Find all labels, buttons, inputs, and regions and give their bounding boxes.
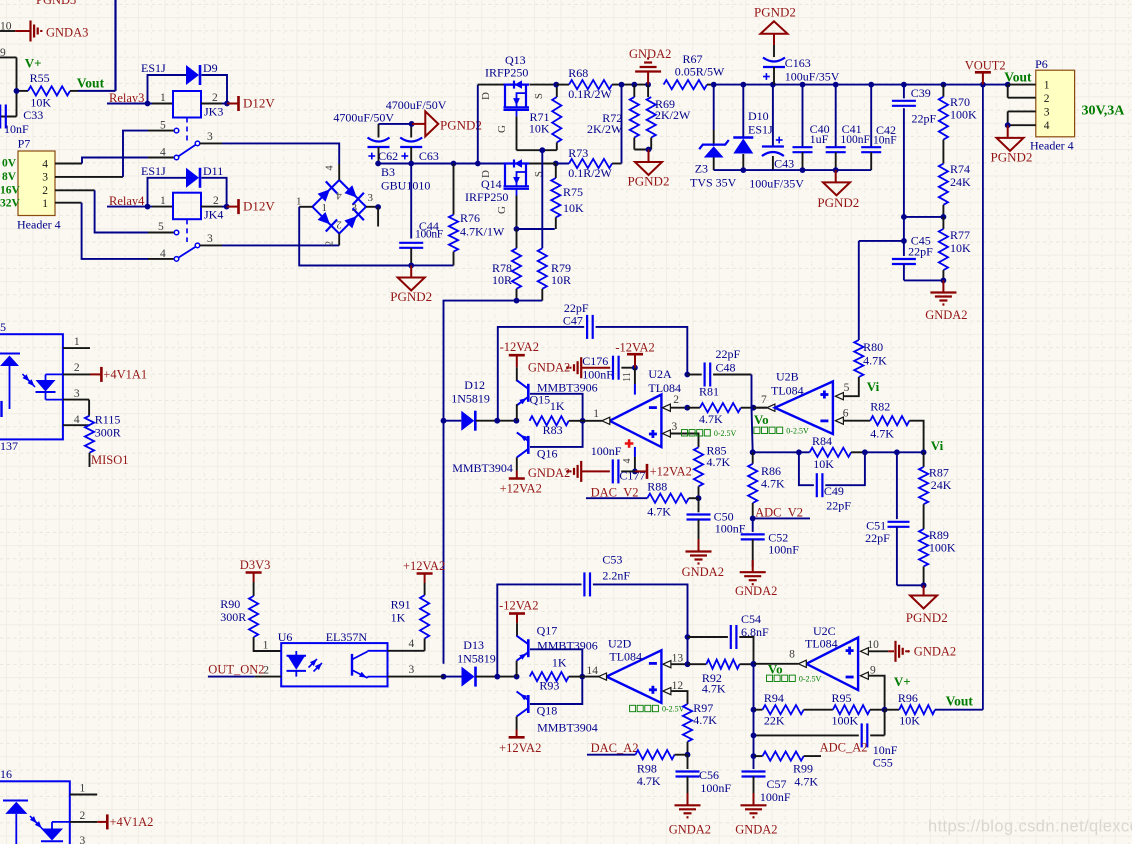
wire Q14 gate <box>496 196 555 232</box>
resistor R99 <box>754 752 822 789</box>
svg-text:Q16: Q16 <box>537 447 558 461</box>
svg-text:IRFP250: IRFP250 <box>485 66 528 80</box>
net 32V label <box>0 198 21 210</box>
power +12VA2 at R91 <box>403 559 445 595</box>
svg-text:R96: R96 <box>898 691 918 705</box>
relay JK4 dashed link <box>186 219 188 242</box>
svg-text:4.7K: 4.7K <box>863 354 887 368</box>
svg-text:4.7K: 4.7K <box>693 713 717 727</box>
svg-text:MMBT3906: MMBT3906 <box>537 639 598 653</box>
resistor R85 <box>694 443 731 501</box>
svg-text:100uF/35V: 100uF/35V <box>785 69 840 83</box>
ground GNDA2 below C56 <box>669 793 711 837</box>
capacitor C43 <box>749 85 804 191</box>
capacitor C176 <box>581 354 638 382</box>
svg-text:R94: R94 <box>764 691 784 705</box>
svg-text:GNDA2: GNDA2 <box>735 823 777 837</box>
opto U16 photodiode <box>41 822 70 841</box>
svg-text:C39: C39 <box>911 86 931 100</box>
svg-text:GNDA2: GNDA2 <box>669 823 711 837</box>
connector P6 <box>1030 57 1075 153</box>
capacitor C56 <box>676 755 732 801</box>
svg-text:32V: 32V <box>0 198 21 210</box>
capacitor C54 <box>685 612 769 664</box>
resistor R75 <box>551 164 584 230</box>
power PGND2 above C163 <box>754 5 796 58</box>
ground GNDA2 below C52 <box>735 560 777 598</box>
net MISO1 <box>90 453 129 467</box>
svg-text:7: 7 <box>761 394 767 406</box>
svg-text:ADC_A2: ADC_A2 <box>820 741 868 755</box>
svg-text:+12VA2: +12VA2 <box>403 559 445 573</box>
svg-text:+12VA2: +12VA2 <box>650 465 692 479</box>
svg-text:VOUT2: VOUT2 <box>965 59 1006 73</box>
svg-text:R55: R55 <box>30 71 50 85</box>
svg-text:R77: R77 <box>950 228 970 242</box>
svg-text:C56: C56 <box>699 768 719 782</box>
op-amp U2D pin13 wire <box>663 653 690 668</box>
ground GNDA2 at U2C pin10 <box>888 641 956 662</box>
svg-text:U2A: U2A <box>648 367 672 381</box>
net DAC_A2 label <box>587 741 639 755</box>
pin 10 wire <box>0 21 15 33</box>
resistor R73 <box>568 146 621 180</box>
svg-text:R68: R68 <box>568 66 588 80</box>
ground GNDA2 at C176 <box>528 357 581 378</box>
svg-text:2.2nF: 2.2nF <box>602 569 630 583</box>
svg-text:1K: 1K <box>550 399 565 413</box>
op-amp U2C TL084 <box>805 624 858 690</box>
opto U16 box (clipped) <box>0 767 70 844</box>
net Vi label right <box>931 438 944 453</box>
svg-text:https://blog.csdn.net/qlexcel: https://blog.csdn.net/qlexcel <box>928 818 1132 836</box>
svg-text:2: 2 <box>213 195 219 207</box>
svg-text:1: 1 <box>1044 79 1050 91</box>
svg-text:C163: C163 <box>785 56 811 70</box>
svg-text:G: G <box>496 125 508 133</box>
svg-text:4.7K: 4.7K <box>699 412 723 426</box>
resistor R67 <box>664 52 725 89</box>
resistor R89 <box>919 528 956 588</box>
svg-text:R76: R76 <box>460 211 480 225</box>
svg-text:JK3: JK3 <box>204 105 223 119</box>
opto U16 pin2 +4V1A2 <box>70 810 154 829</box>
opto U16 LED <box>3 801 43 844</box>
svg-text:C62: C62 <box>378 149 398 163</box>
svg-text:4.7K: 4.7K <box>647 505 671 519</box>
net 16V label <box>0 184 21 196</box>
diode D11 ES1J <box>141 164 227 207</box>
wire filter bottom rail <box>714 167 872 173</box>
svg-text:10K: 10K <box>563 201 584 215</box>
resistor R79 <box>538 150 571 300</box>
resistor R82 <box>870 399 923 452</box>
wire P6 pins 3-4 <box>1005 111 1036 128</box>
capacitor C62 <box>368 124 399 164</box>
resistor R98 <box>635 750 687 788</box>
relay JK4 switch <box>158 221 213 261</box>
ground GNDA2 below R77 <box>925 280 967 322</box>
capacitor C50 <box>687 498 746 547</box>
ground GNDA3 <box>15 21 88 42</box>
svg-text:4700uF/50V: 4700uF/50V <box>333 110 394 124</box>
wire bridge pin3 <box>366 192 381 227</box>
wire Vi node row <box>862 449 926 455</box>
resistor R115 <box>85 412 121 452</box>
svg-text:R73: R73 <box>568 146 588 160</box>
power -12VA2 at Q17 <box>499 599 538 624</box>
opto U5 LED <box>0 354 35 418</box>
svg-text:D12V: D12V <box>243 199 275 214</box>
net PGND3 (clipped text) <box>36 0 76 7</box>
svg-text:MISO1: MISO1 <box>91 453 129 467</box>
transistor Q16 MMBT3904 <box>452 432 557 475</box>
svg-text:C53: C53 <box>602 553 622 567</box>
resistor R87 <box>919 452 952 529</box>
svg-text:4.7K: 4.7K <box>637 774 661 788</box>
diode D13 1N5819 <box>441 638 520 687</box>
capacitor C57 <box>742 664 791 804</box>
opto U16 pin1 wire <box>70 782 97 794</box>
svg-text:3: 3 <box>42 172 48 184</box>
resistor R84 <box>750 434 865 471</box>
svg-text:Vo: Vo <box>754 412 769 427</box>
svg-text:DAC_A2: DAC_A2 <box>591 741 639 755</box>
svg-text:1: 1 <box>160 195 166 207</box>
svg-text:16: 16 <box>0 767 12 781</box>
svg-text:R82: R82 <box>870 399 890 413</box>
svg-text:0V: 0V <box>2 158 17 170</box>
resistor R55 <box>14 71 116 110</box>
opto-coupler U6 EL357N <box>278 630 388 686</box>
svg-text:-12VA2: -12VA2 <box>499 599 538 613</box>
resistor R71 <box>529 85 562 151</box>
svg-text:16V: 16V <box>0 184 21 196</box>
wire P7-1 to relay4 sw4 <box>55 203 174 259</box>
svg-text:2K/2W: 2K/2W <box>655 108 691 122</box>
svg-text:TL084: TL084 <box>805 637 838 651</box>
capacitor C44 <box>399 219 443 265</box>
net Vout label <box>77 76 105 91</box>
svg-text:1K: 1K <box>391 611 406 625</box>
svg-text:GBU1010: GBU1010 <box>381 179 430 193</box>
svg-text:D3V3: D3V3 <box>240 558 271 572</box>
resistor R83 1K <box>530 399 583 437</box>
svg-text:22pF: 22pF <box>912 112 937 126</box>
svg-text:300R: 300R <box>95 426 121 440</box>
svg-text:Vi: Vi <box>867 379 880 394</box>
ground GNDA2 at C177 <box>528 461 581 482</box>
wire P6 pins 1-2 <box>1008 85 1036 98</box>
transistor Q15 MMBT3906 <box>517 367 598 420</box>
opto U16 pin3 label <box>80 835 86 844</box>
svg-text:D: D <box>480 92 492 100</box>
svg-text:G: G <box>496 206 508 214</box>
svg-text:10: 10 <box>867 639 879 651</box>
svg-text:5: 5 <box>0 320 6 334</box>
net Vi label at R80 <box>867 379 880 394</box>
svg-text:1: 1 <box>42 198 48 210</box>
svg-text:D: D <box>480 170 492 178</box>
svg-text:Vi: Vi <box>931 438 944 453</box>
label 4700uF/50V lower <box>333 110 394 124</box>
svg-text:TL084: TL084 <box>771 384 804 398</box>
svg-text:JK4: JK4 <box>204 208 223 222</box>
svg-text:5: 5 <box>844 382 850 394</box>
svg-text:GNDA2: GNDA2 <box>629 47 671 61</box>
op-amp U2C pin8 wire <box>751 649 807 668</box>
wire R83 to U2A out <box>583 420 602 422</box>
relay JK4 coil <box>107 193 230 222</box>
wire Q15/Q16 base loop <box>530 394 585 447</box>
capacitor C33 <box>0 105 43 137</box>
svg-text:4: 4 <box>160 146 166 158</box>
resistor R88 <box>647 480 698 519</box>
net DAC_V2 label <box>586 486 647 500</box>
resistor R95 <box>804 691 888 728</box>
svg-text:PGND2: PGND2 <box>754 5 796 20</box>
svg-text:P6: P6 <box>1035 57 1048 71</box>
svg-text:B3: B3 <box>381 165 395 179</box>
svg-text:PGND3: PGND3 <box>36 0 76 7</box>
svg-text:+4V1A1: +4V1A1 <box>103 367 147 381</box>
opto U5 pin2 +4V1A1 <box>63 362 147 382</box>
svg-text:Header 4: Header 4 <box>17 218 61 232</box>
svg-text:R90: R90 <box>220 597 240 611</box>
op-amp U2A pin3 wire <box>662 421 698 447</box>
ground GNDA2 top <box>629 47 671 85</box>
wire P7-3 to relay3 sw5 <box>55 131 174 177</box>
wire Q13 gate <box>496 117 557 154</box>
svg-text:C47: C47 <box>563 314 583 328</box>
svg-text:Q18: Q18 <box>537 704 558 718</box>
svg-text:R83: R83 <box>543 423 563 437</box>
resistor R81 <box>687 385 756 426</box>
svg-text:3: 3 <box>207 131 213 143</box>
net ADC_A2 label <box>751 741 868 759</box>
svg-text:Vout: Vout <box>77 76 105 91</box>
svg-text:GNDA2: GNDA2 <box>528 466 570 480</box>
svg-text:9: 9 <box>870 665 876 677</box>
svg-text:D11: D11 <box>203 164 223 178</box>
capacitor C47 <box>498 301 688 421</box>
svg-text:13: 13 <box>672 653 684 665</box>
svg-text:3: 3 <box>352 202 358 214</box>
label 137 <box>0 439 18 453</box>
wire P7-4 to relay3 sw4 <box>55 158 174 164</box>
svg-text:24K: 24K <box>950 175 971 189</box>
svg-text:Vout: Vout <box>946 694 974 709</box>
svg-text:PGND2: PGND2 <box>906 610 948 625</box>
label voltage range U2D <box>630 705 685 714</box>
svg-text:D12: D12 <box>464 378 485 392</box>
wire R73 to R68 node <box>619 82 625 164</box>
wire Q17/Q18 base loop <box>530 649 585 704</box>
svg-text:TL084: TL084 <box>648 381 681 395</box>
svg-text:+12VA2: +12VA2 <box>500 482 542 496</box>
svg-text:PGND2: PGND2 <box>991 150 1033 165</box>
svg-text:0-2.5V: 0-2.5V <box>662 705 685 714</box>
op-amp U2B pin5 wire <box>835 377 858 400</box>
svg-text:100nF: 100nF <box>768 543 799 557</box>
svg-text:2: 2 <box>80 810 86 822</box>
svg-text:PGND2: PGND2 <box>440 118 482 133</box>
wire U2B out to Vo column <box>752 398 767 452</box>
svg-text:5: 5 <box>158 221 164 233</box>
svg-text:U2B: U2B <box>776 370 799 384</box>
svg-text:8V: 8V <box>2 171 17 183</box>
svg-text:-12VA2: -12VA2 <box>500 340 539 354</box>
power +12VA2 at C177 <box>635 464 692 479</box>
svg-text:R80: R80 <box>863 340 883 354</box>
svg-text:Vout: Vout <box>1004 70 1032 85</box>
capacitor C49 <box>799 452 865 512</box>
label voltage range U2A <box>682 429 737 438</box>
svg-text:0.05R/5W: 0.05R/5W <box>675 64 725 78</box>
svg-text:22K: 22K <box>764 714 785 728</box>
opto U5 box (clipped) <box>0 320 63 439</box>
connector P7 <box>17 137 61 232</box>
diode D12 1N5819 <box>441 378 520 431</box>
power -12VA2 at U2A <box>615 341 654 368</box>
svg-text:D10: D10 <box>748 109 769 123</box>
svg-text:22pF: 22pF <box>716 347 741 361</box>
svg-text:100K: 100K <box>950 108 977 122</box>
wire left branch vertical <box>16 57 18 116</box>
svg-text:100K: 100K <box>929 541 956 555</box>
svg-text:+4V1A2: +4V1A2 <box>110 815 154 829</box>
svg-text:R91: R91 <box>391 598 411 612</box>
net ADC_V2 label <box>750 506 810 522</box>
net 0V label <box>2 158 17 170</box>
op-amp U2B TL084 <box>771 370 833 435</box>
svg-text:0-2.5V: 0-2.5V <box>714 429 737 438</box>
capacitor C40 <box>793 85 830 171</box>
svg-text:MMBT3904: MMBT3904 <box>452 461 513 475</box>
svg-text:22pF: 22pF <box>826 498 851 512</box>
svg-text:2: 2 <box>325 241 336 246</box>
resistor R69 <box>645 82 691 150</box>
svg-text:D12V: D12V <box>243 96 275 111</box>
svg-text:ADC_V2: ADC_V2 <box>755 506 803 520</box>
svg-text:2: 2 <box>673 394 679 406</box>
svg-text:4: 4 <box>160 248 166 260</box>
svg-text:6: 6 <box>843 408 849 420</box>
transistor Q13 IRFP250 <box>478 53 556 164</box>
svg-text:4.7K: 4.7K <box>702 681 726 695</box>
svg-text:4: 4 <box>74 414 80 426</box>
svg-text:100nF: 100nF <box>591 444 622 458</box>
svg-text:0.1R/2W: 0.1R/2W <box>568 87 612 101</box>
op-amp U2B pin6 wire <box>835 408 870 425</box>
power -12VA2 at Q15 <box>500 340 539 368</box>
resistor R74 <box>939 140 971 220</box>
svg-text:100nF: 100nF <box>415 229 443 241</box>
capacitor C63 <box>400 124 439 164</box>
wire Vout feedback vertical <box>982 85 984 710</box>
svg-text:137: 137 <box>0 439 18 453</box>
svg-text:1K: 1K <box>552 655 567 669</box>
svg-text:R84: R84 <box>812 434 832 448</box>
svg-text:1: 1 <box>80 782 86 794</box>
wire main DC rail y=163.5 <box>375 161 569 167</box>
svg-text:3: 3 <box>207 233 213 245</box>
label 4700uF/50V upper <box>386 98 447 112</box>
transistor Q17 MMBT3906 <box>517 623 598 676</box>
wire R90 to U6 pin1 <box>254 637 282 651</box>
svg-text:4700uF/50V: 4700uF/50V <box>386 98 447 112</box>
op-amp U2C pin10 wire <box>860 639 888 655</box>
svg-text:C63: C63 <box>419 149 439 163</box>
svg-text:C54: C54 <box>741 612 761 626</box>
opto U5 pin4 wire <box>63 414 90 426</box>
svg-text:C55: C55 <box>873 756 893 770</box>
svg-text:11: 11 <box>622 372 633 382</box>
svg-text:ES1J: ES1J <box>748 123 773 137</box>
svg-text:4: 4 <box>409 638 415 650</box>
wire output rail y=84.6 <box>711 82 1011 88</box>
svg-text:100nF: 100nF <box>700 781 731 795</box>
net Vo at U2B <box>754 412 809 435</box>
svg-text:10R: 10R <box>492 273 512 287</box>
wire relay4-3 to bridge pin2 <box>200 244 339 246</box>
svg-text:1: 1 <box>593 408 599 420</box>
svg-text:GNDA3: GNDA3 <box>46 25 88 39</box>
svg-text:D9: D9 <box>203 61 218 75</box>
transistor Q18 MMBT3904 <box>517 692 598 735</box>
op-amp U2D TL084 <box>587 637 662 703</box>
svg-text:2: 2 <box>336 219 342 231</box>
svg-text:12: 12 <box>672 680 684 692</box>
svg-text:4: 4 <box>42 158 48 170</box>
capacitor C48 <box>684 347 751 398</box>
net 8V label <box>2 171 17 183</box>
wire U6 pin4 to R91 <box>388 638 425 651</box>
resistor R68 <box>553 66 648 101</box>
wire R93 to U2D out <box>582 676 599 678</box>
wire C63 column down to C44 <box>410 164 412 239</box>
svg-text:4: 4 <box>325 165 336 171</box>
opto U5 photodiode <box>36 374 63 399</box>
power PGND2 below R89 <box>906 585 948 625</box>
svg-text:EL357N: EL357N <box>326 630 368 644</box>
op-amp U2A pin11 <box>622 368 635 395</box>
svg-text:TVS 35V: TVS 35V <box>690 176 737 190</box>
power +12VA2 at Q18 <box>499 730 541 756</box>
svg-text:10K: 10K <box>950 241 971 255</box>
wire Vout vertical from top <box>114 0 116 91</box>
svg-text:C49: C49 <box>824 484 844 498</box>
resistor R70 <box>939 85 977 140</box>
svg-text:300R: 300R <box>220 610 246 624</box>
op-amp U2D pin12 wire <box>663 680 688 704</box>
transistor Q14 IRFP250 <box>465 159 556 204</box>
power PGND2 below P6 <box>991 125 1033 164</box>
svg-text:14: 14 <box>587 665 599 677</box>
op-amp U2C pin9 wire <box>860 665 884 710</box>
capacitor C41 <box>826 85 870 171</box>
wire PGND bottom rail <box>299 263 453 269</box>
power D3V3 at R90 <box>240 558 271 596</box>
opto U5 pin1 wire <box>63 336 90 348</box>
svg-text:1: 1 <box>74 336 80 348</box>
wire P7-2 to relay4 sw5 <box>55 190 174 232</box>
capacitor C51 <box>865 452 923 585</box>
resistor R80 <box>854 241 887 377</box>
net Vo at U2C <box>767 662 822 684</box>
wire relay3-3 to bridge pin4 <box>200 143 339 164</box>
wire U6 pin3 out <box>388 664 444 677</box>
